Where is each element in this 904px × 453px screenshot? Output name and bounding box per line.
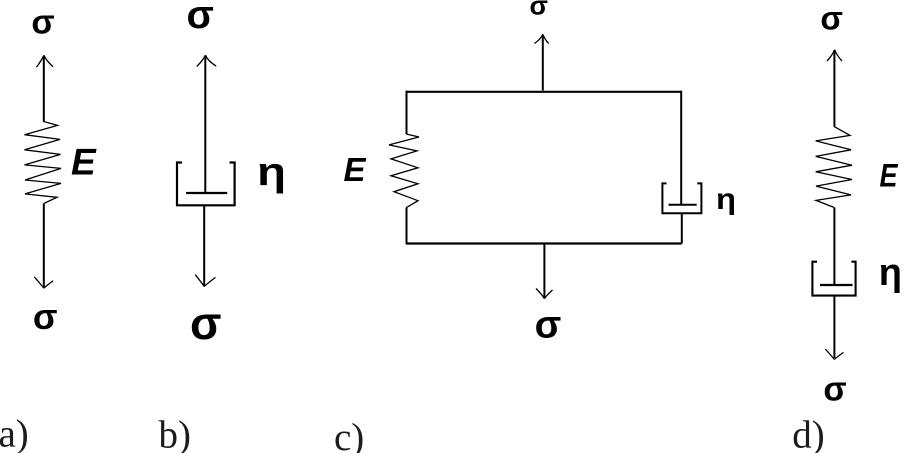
svg-text:E: E [344, 151, 367, 188]
svg-text:η: η [257, 150, 286, 194]
svg-text:σ: σ [187, 0, 214, 37]
svg-text:σ: σ [190, 297, 221, 349]
svg-text:σ: σ [31, 3, 54, 41]
svg-text:η: η [716, 183, 736, 216]
svg-text:σ: σ [535, 303, 562, 346]
svg-text:a): a) [0, 412, 29, 453]
svg-text:σ: σ [33, 296, 58, 337]
svg-text:σ: σ [823, 371, 846, 409]
svg-text:η: η [879, 252, 902, 294]
svg-text:b): b) [159, 414, 192, 453]
svg-text:σ: σ [820, 0, 843, 37]
svg-text:σ: σ [529, 0, 547, 21]
svg-text:E: E [880, 158, 899, 194]
svg-text:c): c) [334, 416, 364, 453]
svg-text:E: E [71, 142, 97, 183]
svg-text:d): d) [792, 414, 825, 453]
